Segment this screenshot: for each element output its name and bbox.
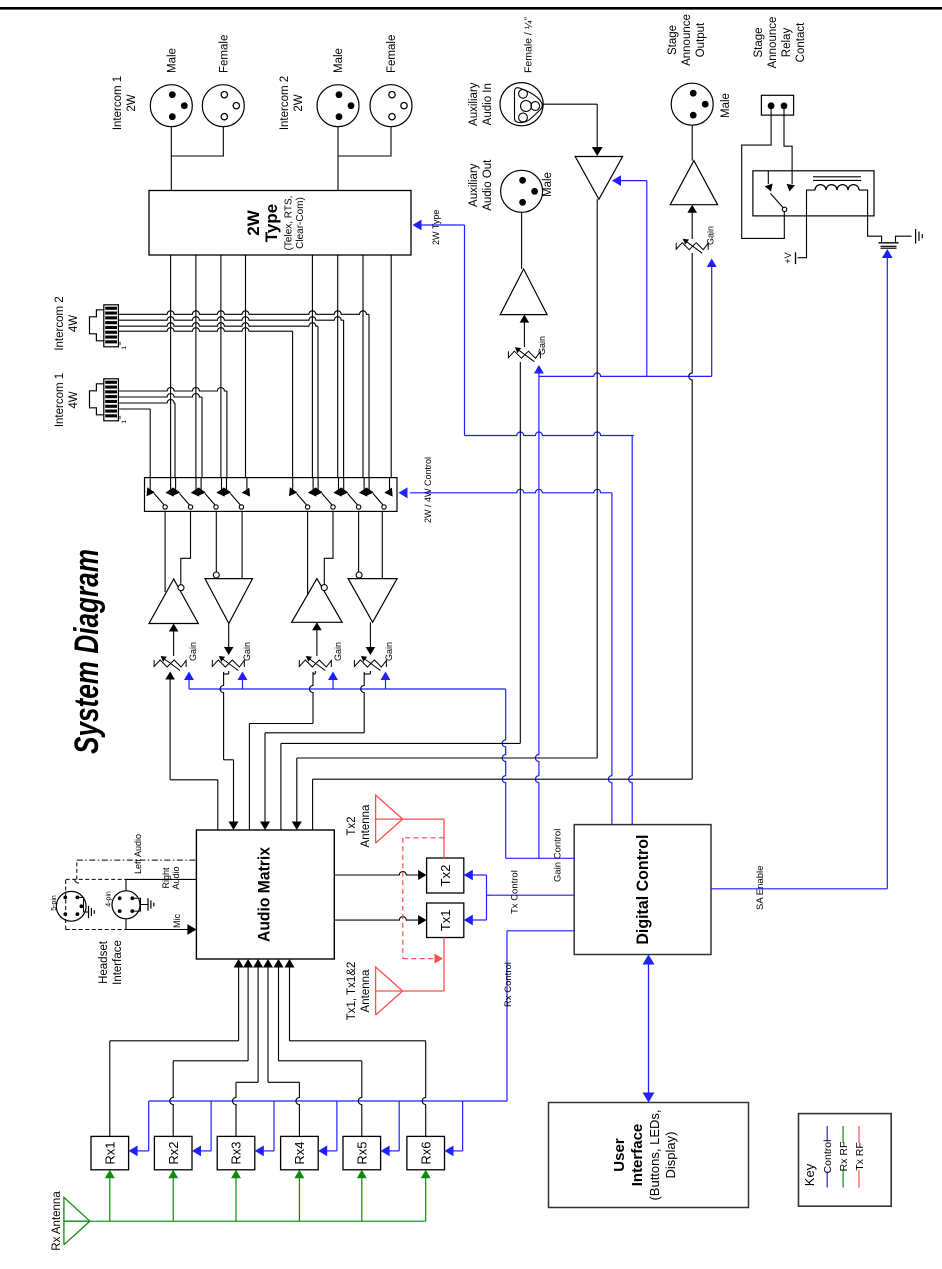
svg-text:+V: +V [783, 252, 793, 263]
blue gain arrow into pot [188, 679, 190, 690]
RJ45 jack Intercom 1 4W [104, 379, 119, 421]
chain D: pot P4 to matrix (arrow) [361, 672, 364, 733]
Rx antenna symbol [64, 1197, 90, 1244]
aux in amp (down) [575, 157, 622, 200]
blue control into aux in amp [646, 181, 648, 377]
svg-text:Female / ¼”: Female / ¼” [523, 16, 535, 73]
receiver Rx3 [217, 1136, 255, 1169]
blue gain arrow into pot [385, 679, 387, 690]
wire terminal 2 to contact B [784, 109, 792, 184]
wire aux in connector to amp [543, 103, 597, 105]
page border rule (top) [0, 7, 942, 10]
aux out amp [500, 269, 547, 315]
svg-text:Tx2: Tx2 [346, 816, 358, 835]
svg-text:Rx2: Rx2 [166, 1142, 181, 1165]
wire Rx5 to Audio Matrix [358, 1061, 362, 1137]
amp A (to 2W) [149, 579, 198, 624]
wire RJ45-1 to switch box [118, 393, 202, 397]
receiver Rx5 [343, 1136, 381, 1169]
svg-text:1: 1 [121, 346, 128, 350]
svg-text:Tx RF: Tx RF [854, 1142, 866, 1171]
4-pin headset connector [112, 891, 140, 919]
svg-text:Rx Control: Rx Control [503, 962, 514, 1007]
wire pot P3 to amp C [316, 630, 318, 656]
wire terminal 1 to relay pole [742, 109, 785, 238]
svg-text:2W: 2W [244, 209, 263, 235]
svg-text:Antenna: Antenna [360, 969, 372, 1012]
svg-text:Female: Female [219, 35, 231, 73]
wire switch box to 2W Type box [170, 255, 172, 478]
SA amp [670, 161, 717, 205]
svg-text:Male: Male [720, 93, 732, 118]
svg-text:Antenna: Antenna [360, 804, 372, 847]
wire female XLR 1 [171, 127, 223, 156]
row4: aux in amp to matrix (arrow) [596, 199, 598, 758]
transmitter Tx1 [427, 903, 464, 938]
svg-text:Right: Right [161, 867, 171, 889]
wire pot to SA amp [691, 212, 693, 239]
XLR male Stage Announce Output [671, 83, 713, 125]
svg-text:Tx1, Tx1&2: Tx1, Tx1&2 [346, 962, 358, 1021]
transistor ground [915, 229, 917, 244]
red Tx2 antenna feed [403, 818, 444, 820]
svg-text:2W: 2W [126, 94, 138, 111]
blue aux gain line [535, 376, 539, 858]
legend Control (blue) [826, 1172, 828, 1188]
wire switch box to 2W Type box [311, 255, 313, 478]
wire RJ45-1 to switch box [118, 408, 150, 410]
svg-text:(Buttons, LEDs,: (Buttons, LEDs, [647, 1109, 662, 1200]
svg-text:Output: Output [695, 22, 707, 57]
legend Tx RF (red) [858, 1170, 860, 1188]
+V symbol [795, 252, 797, 264]
XLR male Intercom 2 [317, 85, 359, 127]
XLR female Intercom 2 [370, 85, 412, 127]
SPDT switch S1 [163, 505, 167, 509]
blue Rx Control branch to Rx1 [148, 1101, 150, 1151]
row5: matrix to SA pot [312, 779, 314, 830]
RJ45 jack Intercom 2 4W [104, 305, 119, 347]
amp B (from 2W) [205, 579, 253, 624]
svg-text:Gain: Gain [384, 642, 394, 661]
blue gain arrow into pot [242, 679, 244, 690]
blue gain arrow SA [711, 266, 713, 376]
svg-text:Display): Display) [663, 1132, 678, 1179]
SPDT switch S2 [188, 505, 192, 509]
svg-text:4-pin: 4-pin [106, 891, 113, 907]
svg-text:SA Enable: SA Enable [755, 866, 766, 910]
svg-text:Intercom 1: Intercom 1 [54, 373, 66, 427]
svg-text:Rx3: Rx3 [229, 1142, 244, 1165]
svg-text:Tx1: Tx1 [438, 909, 453, 931]
svg-text:1: 1 [121, 420, 128, 424]
svg-text:Gain Control: Gain Control [553, 829, 564, 882]
svg-text:Tx2: Tx2 [438, 865, 453, 887]
blue gain-control bus (left) [189, 688, 506, 690]
svg-text:4W: 4W [68, 391, 80, 408]
Key legend box [799, 1114, 892, 1207]
svg-text:Audio: Audio [171, 866, 181, 889]
svg-text:Auxiliary: Auxiliary [468, 163, 480, 207]
svg-text:Digital Control: Digital Control [633, 835, 652, 945]
blue Rx Control riser to Digital Control [506, 931, 508, 1101]
Audio Matrix box [196, 830, 334, 959]
svg-text:Male: Male [333, 48, 345, 73]
amp C (to 2W) [292, 579, 343, 623]
svg-text:Rx6: Rx6 [418, 1142, 433, 1165]
svg-text:Announce: Announce [681, 14, 693, 66]
wire female XLR 2 [338, 127, 391, 156]
blue gain arrow aux out [538, 372, 540, 376]
wire amp to aux out XLR [521, 212, 523, 269]
SPDT switch S8 [382, 505, 386, 509]
chain A: matrix to pot P1 [217, 780, 219, 830]
amp D (from 2W) [348, 579, 397, 623]
relay contact A [767, 171, 769, 184]
wire switch box to 2W Type box [245, 255, 247, 478]
wire amp to SA XLR [691, 125, 693, 161]
receiver Rx4 [281, 1136, 319, 1169]
receiver Rx2 [154, 1136, 192, 1169]
blue Rx Control branch to Rx4 [336, 1101, 338, 1151]
svg-text:Relay: Relay [781, 28, 793, 58]
relay armature [771, 194, 784, 208]
wire switch box to 2W Type box [362, 255, 364, 478]
relay coil [815, 185, 859, 191]
wire pot to aux out amp [523, 322, 525, 347]
svg-text:Type: Type [262, 204, 281, 242]
green Rx RF branch [235, 1174, 237, 1221]
svg-text:Audio Matrix: Audio Matrix [256, 846, 274, 942]
relay terminal block [761, 95, 793, 115]
Tx2 antenna [376, 795, 403, 843]
red Tx1 antenna feed [403, 990, 444, 992]
svg-text:Gain: Gain [188, 642, 198, 661]
green Rx RF branch [172, 1174, 174, 1221]
green Rx RF branch [298, 1174, 300, 1221]
blue 2W Type select wire [421, 224, 465, 226]
svg-text:(Telex, RTS,: (Telex, RTS, [284, 196, 295, 251]
5-pin ground bracket [77, 897, 83, 912]
svg-text:Gain: Gain [242, 642, 252, 661]
transmitter Tx2 [427, 858, 464, 893]
green Rx RF branch [109, 1174, 111, 1221]
svg-text:Intercom 1: Intercom 1 [112, 76, 124, 130]
svg-text:2W Type: 2W Type [431, 210, 441, 245]
svg-text:Rx1: Rx1 [102, 1142, 117, 1165]
row3: matrix to aux-out pot [280, 743, 282, 830]
svg-text:Rx Antenna: Rx Antenna [51, 1191, 63, 1251]
svg-text:Male: Male [167, 48, 179, 73]
svg-text:Left Audio: Left Audio [133, 834, 143, 874]
XLR female Intercom 1 [202, 85, 244, 127]
receiver Rx1 [91, 1136, 129, 1169]
svg-text:Intercom 2: Intercom 2 [54, 296, 66, 350]
relay box [753, 171, 874, 216]
svg-text:2W: 2W [293, 94, 305, 111]
svg-text:Rx RF: Rx RF [838, 1142, 850, 1172]
svg-text:Stage: Stage [753, 27, 765, 57]
wire RJ45-1 to switch box [118, 399, 175, 403]
svg-text:Key: Key [802, 1163, 817, 1186]
wire RJ45-2 to switch box [118, 311, 369, 315]
svg-text:Headset: Headset [98, 940, 110, 984]
svg-text:Rx5: Rx5 [354, 1142, 369, 1165]
svg-text:Control: Control [822, 1140, 834, 1174]
SPDT switch S4 [239, 505, 243, 509]
svg-text:Audio Out: Audio Out [482, 159, 494, 211]
Right Audio line [125, 879, 127, 890]
green Rx RF bus [90, 1220, 426, 1222]
green Rx RF branch [425, 1174, 427, 1221]
wire Rx1 to Audio Matrix [109, 1041, 111, 1137]
blue Tx Control wire [492, 894, 574, 896]
wire switch box to 2W Type box [337, 255, 339, 478]
blue Rx Control branch to Rx5 [398, 1101, 400, 1151]
5-pin headset connector [56, 891, 86, 921]
svg-text:Intercom 2: Intercom 2 [279, 76, 291, 130]
wire Audio Matrix to Tx2 [334, 872, 418, 876]
Tx1,Tx1&2 antenna [376, 967, 403, 1015]
SPDT switch S3 [214, 505, 218, 509]
XLR male Aux Audio Out [501, 170, 543, 212]
2W Type box [149, 191, 411, 256]
wire Rx6 to Audio Matrix [422, 1041, 426, 1137]
legend Rx RF (green) [842, 1170, 844, 1188]
svg-text:Clear-Com): Clear-Com) [295, 197, 306, 249]
wire RJ45-2 to switch box [118, 323, 318, 327]
Left Audio dash-dot line [77, 859, 197, 861]
svg-text:User: User [611, 1138, 628, 1172]
svg-text:Audio In: Audio In [482, 83, 494, 125]
User Interface box [549, 1103, 749, 1208]
Mic line with arrow [125, 919, 127, 930]
svg-text:Interface: Interface [112, 940, 124, 985]
wire Rx2 to Audio Matrix [170, 1061, 174, 1137]
blue Rx Control branch to Rx6 [462, 1101, 464, 1151]
wire Rx4 to Audio Matrix [296, 1082, 299, 1136]
green Rx RF branch [361, 1174, 363, 1221]
svg-text:Female: Female [386, 35, 398, 73]
SPDT switch S7 [356, 505, 360, 509]
svg-text:Auxiliary: Auxiliary [468, 82, 480, 126]
wire RJ45-2 to switch box [118, 328, 292, 332]
blue double arrow DC-UI [648, 963, 650, 1094]
wire coil to +V [798, 190, 816, 258]
SPDT switch S6 [331, 505, 335, 509]
blue Rx Control branch to Rx2 [210, 1101, 212, 1151]
wire switch box to 2W Type box [220, 255, 222, 478]
wire 2W box to male XLR 2 [337, 127, 339, 191]
wire RJ45-1 to switch box [118, 388, 226, 392]
blue Rx Control branch to Rx3 [273, 1101, 275, 1151]
svg-text:Male: Male [542, 172, 554, 197]
wire coil to transistor [859, 190, 882, 243]
svg-text:Contact: Contact [795, 22, 807, 62]
svg-text:Gain: Gain [333, 642, 343, 661]
wire amp D to pot P4 [369, 622, 371, 648]
aux out gain pot [508, 351, 540, 358]
wire RJ45-2 to switch box [118, 317, 343, 321]
chain C: matrix to pot P3 [248, 724, 250, 831]
wire switch box to 2W Type box [390, 255, 392, 478]
wire 2W box to male XLR 1 [170, 127, 172, 191]
SA gain pot [676, 243, 708, 250]
2W/4W Control blue wire [410, 489, 612, 493]
svg-text:Gain: Gain [537, 336, 547, 355]
wire Audio Matrix to Tx1 [334, 917, 418, 921]
XLR male Intercom 1 [150, 85, 192, 127]
switch pole wires to amps [164, 511, 166, 592]
svg-text:2W / 4W Control: 2W / 4W Control [423, 457, 433, 523]
wire amp B to pot P2 [228, 624, 230, 649]
blue Rx Control bus [149, 1100, 463, 1102]
svg-text:Stage: Stage [667, 25, 679, 55]
gain pot P3 [299, 660, 331, 667]
svg-text:4W: 4W [68, 315, 80, 332]
4-pin ground bracket [133, 898, 141, 911]
wire pot P1 to amp A [173, 631, 175, 656]
receiver Rx6 [407, 1136, 445, 1169]
gain pot P2 [212, 660, 244, 667]
svg-text:Mic: Mic [172, 914, 182, 928]
red dashed Tx2-to-Tx1 link [403, 837, 444, 839]
Digital Control box [574, 825, 711, 955]
svg-text:Interface: Interface [629, 1124, 646, 1187]
svg-text:Gain: Gain [706, 226, 716, 245]
transistor (SA enable) [879, 242, 899, 244]
gain pot P1 [154, 660, 186, 667]
headset interface dashed enclosure [65, 879, 67, 929]
wire Rx3 to Audio Matrix [233, 1082, 237, 1136]
SPDT switch S5 [305, 505, 309, 509]
2W/4W switch box [145, 478, 398, 512]
blue gain arrow into pot [332, 679, 334, 690]
blue gain-control riser to DC [502, 689, 506, 858]
svg-text:System Diagram: System Diagram [68, 549, 106, 754]
svg-text:Rx4: Rx4 [292, 1142, 307, 1165]
blue SA Enable wire [711, 888, 887, 890]
chain B: pot P2 to matrix (arrow) [220, 672, 223, 760]
combo connector Aux Audio In [500, 83, 543, 126]
wire switch box to 2W Type box [195, 255, 197, 478]
blue gain bus right [539, 373, 712, 377]
gain pot P4 [354, 660, 386, 667]
svg-text:Announce: Announce [767, 17, 779, 69]
svg-text:Tx Control: Tx Control [510, 870, 521, 914]
svg-text:5-pin: 5-pin [51, 895, 58, 911]
